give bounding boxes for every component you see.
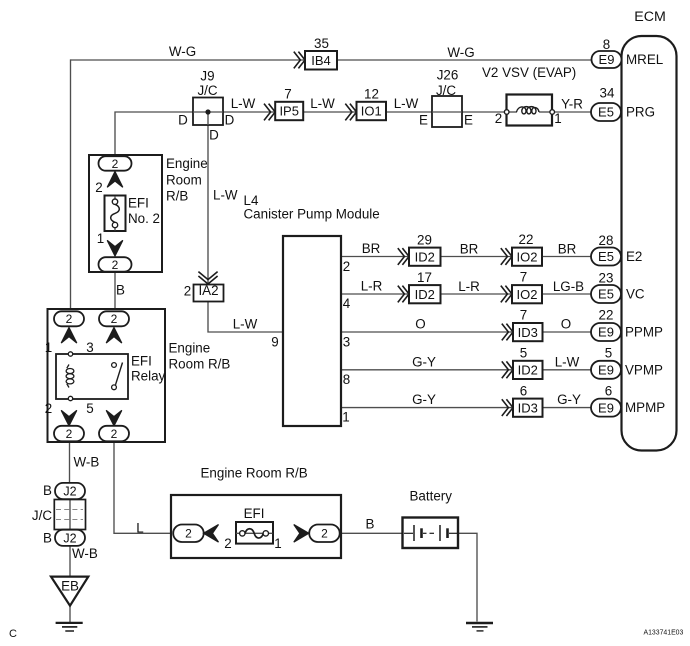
- svg-text:8: 8: [343, 372, 350, 387]
- svg-text:6: 6: [520, 384, 527, 399]
- svg-text:1: 1: [97, 231, 104, 246]
- figure number A133741E03: [644, 630, 684, 637]
- pin 6 E9 MPMP: [591, 384, 665, 417]
- svg-text:2: 2: [66, 312, 73, 326]
- svg-text:D: D: [225, 113, 235, 128]
- svg-text:PRG: PRG: [626, 105, 655, 120]
- wire G-Y ID3 to ECM pin E9-6: [543, 407, 592, 409]
- connector ID2 pin 29 row1: [398, 233, 441, 266]
- svg-text:L-W: L-W: [233, 317, 258, 332]
- svg-text:E5: E5: [598, 287, 614, 302]
- label B wire: [116, 283, 125, 298]
- pin 28 E5 E2: [591, 233, 642, 266]
- svg-text:ECM: ECM: [634, 9, 666, 25]
- label B battery wire: [366, 517, 375, 532]
- wire O ID3 to ECM pin E9-22: [543, 331, 592, 333]
- connector IO2 pin 7 row2: [501, 270, 542, 304]
- svg-text:Room R/B: Room R/B: [169, 357, 231, 372]
- wire L from relay pin 5 to Engine Room R/B: [114, 442, 174, 534]
- arrow up relay pin3: [106, 328, 122, 344]
- wire BR IO2 to ECM pin E5-28: [542, 256, 592, 258]
- svg-text:J/C: J/C: [436, 83, 456, 98]
- wire BR module pin 2 to ID2: [341, 256, 409, 258]
- module pin 4 label: [343, 296, 351, 311]
- svg-text:J26: J26: [437, 68, 459, 83]
- svg-text:Battery: Battery: [410, 489, 453, 504]
- svg-text:17: 17: [417, 270, 432, 285]
- ECM outline: [622, 9, 677, 451]
- arrow down out of fuse EFI No.2: [107, 240, 123, 256]
- relay switch contact: [112, 363, 123, 390]
- label G-Y ID3-E9: [557, 392, 581, 407]
- svg-text:VPMP: VPMP: [625, 362, 663, 377]
- svg-text:EFI: EFI: [128, 196, 149, 211]
- label BR module-ID2: [362, 241, 381, 256]
- svg-text:R/B: R/B: [166, 189, 188, 204]
- wire L-R module pin 4 to ID2: [341, 293, 409, 295]
- svg-text:B: B: [116, 283, 125, 298]
- label BR ID2-IO2: [460, 242, 479, 257]
- svg-text:W-G: W-G: [169, 44, 196, 59]
- connector oval 2 relay pin1 top: [54, 311, 84, 326]
- svg-text:Engine: Engine: [169, 341, 211, 356]
- wire L-W from J26 to VSV: [462, 111, 505, 113]
- svg-text:2: 2: [224, 536, 231, 551]
- earth ground symbol left: [56, 623, 83, 631]
- svg-text:12: 12: [364, 87, 379, 102]
- svg-text:5: 5: [520, 346, 527, 361]
- svg-text:2: 2: [95, 180, 102, 195]
- svg-text:J/C: J/C: [197, 83, 217, 98]
- svg-text:ID3: ID3: [518, 400, 538, 415]
- label W-G left: [169, 44, 196, 59]
- svg-text:V2 VSV (EVAP): V2 VSV (EVAP): [482, 65, 576, 80]
- wire L-W from IP5 to IO1: [303, 111, 357, 113]
- svg-text:C: C: [9, 628, 17, 640]
- wire Y-R from VSV to ECM pin E5-34: [554, 111, 592, 113]
- svg-text:J2: J2: [63, 485, 76, 499]
- svg-text:D: D: [178, 113, 188, 128]
- wire G-Y module pin 1 to ID3: [341, 407, 513, 409]
- svg-text:BR: BR: [460, 242, 479, 257]
- wire W-G vertical branch down left side: [70, 59, 72, 311]
- svg-text:EFI: EFI: [244, 506, 265, 521]
- wire BR ID2 to IO2: [441, 256, 513, 258]
- wire relay coil branch vertical: [68, 326, 70, 427]
- label L-W IO1-J26: [394, 96, 419, 111]
- wire W-B from J2 to EB ground: [69, 546, 71, 577]
- label G-Y module-ID2 row4: [412, 355, 436, 370]
- wire from battery to ground: [458, 533, 477, 621]
- svg-text:O: O: [415, 317, 425, 332]
- relay block Engine Room R/B lower outline: [171, 466, 341, 559]
- svg-text:E9: E9: [598, 362, 614, 377]
- wire L-W from J9 to Engine Room R/B junction: [115, 112, 193, 156]
- svg-text:G-Y: G-Y: [412, 392, 436, 407]
- wire L-R ID2 to IO2: [441, 293, 513, 295]
- module pin 9 label: [271, 335, 278, 350]
- svg-text:No. 2: No. 2: [128, 211, 160, 226]
- pin 23 E5 VC: [591, 271, 645, 304]
- svg-text:LG-B: LG-B: [553, 279, 584, 294]
- arrow up into fuse EFI No.2: [107, 172, 123, 188]
- svg-text:9: 9: [271, 335, 278, 350]
- label W-B lower: [72, 546, 98, 561]
- wire W-B from relay to J2: [69, 442, 71, 484]
- svg-text:L-W: L-W: [310, 96, 335, 111]
- svg-text:J/C: J/C: [32, 508, 52, 523]
- svg-text:Engine: Engine: [166, 156, 208, 171]
- svg-text:2: 2: [185, 527, 192, 541]
- svg-text:2: 2: [112, 258, 119, 272]
- arrow left into fuse EFI: [204, 525, 219, 543]
- earth ground symbol right: [466, 623, 493, 631]
- arrow down relay pin5: [106, 410, 122, 426]
- svg-text:28: 28: [599, 233, 614, 248]
- connector ID2 pin 5 row4: [502, 346, 543, 380]
- connector IA2 pin 2: [184, 272, 224, 302]
- wire through J/C junction: [69, 499, 71, 531]
- svg-text:G-Y: G-Y: [412, 355, 436, 370]
- svg-text:MPMP: MPMP: [625, 400, 665, 415]
- svg-text:L-R: L-R: [458, 279, 480, 294]
- svg-text:EB: EB: [61, 579, 79, 594]
- svg-text:6: 6: [605, 384, 612, 399]
- label L-W ID2-E9: [555, 354, 580, 369]
- svg-text:W-B: W-B: [74, 455, 100, 470]
- svg-text:22: 22: [519, 232, 534, 247]
- svg-text:22: 22: [599, 308, 614, 323]
- svg-text:5: 5: [86, 401, 93, 416]
- svg-text:L-W: L-W: [213, 188, 238, 203]
- wire inside R/B fuse to bottom oval: [114, 231, 116, 259]
- connector IO2 pin 22 row1: [501, 232, 542, 266]
- svg-text:W-B: W-B: [72, 546, 98, 561]
- svg-text:MREL: MREL: [626, 52, 663, 67]
- svg-text:35: 35: [314, 36, 329, 51]
- junction J26 J/C: [419, 68, 473, 128]
- svg-text:E2: E2: [626, 249, 642, 264]
- connector J2 upper: [43, 483, 85, 499]
- svg-text:3: 3: [86, 340, 93, 355]
- svg-text:8: 8: [603, 37, 610, 52]
- label O ID3-E9: [561, 317, 571, 332]
- pin 22 E9 PPMP: [591, 308, 663, 342]
- svg-text:B: B: [43, 483, 52, 498]
- solenoid V2 VSV (EVAP): [482, 65, 576, 126]
- label L wire: [136, 521, 143, 536]
- connector oval 2 bottom R/B right: [309, 525, 340, 543]
- svg-text:2: 2: [321, 527, 328, 541]
- pin 8 E9 MREL: [592, 37, 664, 68]
- svg-text:IA2: IA2: [198, 283, 218, 298]
- connector oval 2 relay pin3 top: [99, 311, 129, 326]
- svg-text:E9: E9: [598, 400, 614, 415]
- arrow up relay pin1: [61, 328, 77, 344]
- connector oval 2 bottom R/B left: [173, 525, 204, 543]
- connector IB4 pin 35: [294, 36, 337, 70]
- label BR IO2-E5: [558, 242, 577, 257]
- connector oval 2 relay pin5 bottom: [99, 426, 129, 442]
- wire B from R/B to battery: [340, 532, 403, 534]
- wire inside R/B oval to fuse EFI No.2: [114, 170, 116, 196]
- arrow down relay pin2: [61, 410, 77, 426]
- svg-text:Y-R: Y-R: [561, 97, 583, 112]
- svg-text:Relay: Relay: [131, 369, 166, 384]
- module pin 8 label: [343, 372, 350, 387]
- svg-text:B: B: [43, 531, 52, 546]
- pin 34 E5 PRG: [591, 86, 655, 122]
- connector ID3 pin 7 row3: [502, 308, 543, 342]
- label L-W IP5-IO1: [310, 96, 335, 111]
- ground EB triangle: [51, 577, 88, 606]
- svg-text:2: 2: [111, 312, 118, 326]
- svg-text:E: E: [419, 113, 428, 128]
- label LG-B IO2-E5: [553, 279, 584, 294]
- svg-text:L-W: L-W: [555, 354, 580, 369]
- svg-text:4: 4: [343, 296, 351, 311]
- fuse EFI pin 1 label: [274, 536, 281, 551]
- svg-text:PPMP: PPMP: [625, 325, 663, 340]
- relay coil: [66, 365, 74, 388]
- relay pin 3 label: [86, 340, 93, 355]
- svg-text:23: 23: [599, 271, 614, 286]
- label W-G right: [447, 45, 474, 60]
- svg-text:7: 7: [520, 308, 527, 323]
- svg-text:E9: E9: [598, 325, 614, 340]
- junction J9 J/C: [178, 69, 235, 143]
- fuse EFI bottom: [236, 506, 273, 544]
- svg-text:IP5: IP5: [279, 104, 299, 119]
- relay pin 5 label: [86, 401, 93, 416]
- wire L-W from IA2 to module pin 9: [208, 302, 283, 333]
- label G-Y module-ID3 row5: [412, 392, 436, 407]
- svg-text:BR: BR: [558, 242, 577, 257]
- svg-text:ID2: ID2: [518, 363, 538, 378]
- svg-text:7: 7: [284, 87, 291, 102]
- wire L-W from IO1 to J26: [386, 111, 432, 113]
- label O module-ID3: [415, 317, 425, 332]
- svg-text:IO2: IO2: [517, 287, 538, 302]
- svg-text:E9: E9: [599, 52, 615, 67]
- module pin 3 label: [343, 335, 350, 350]
- junction J/C dashed: [32, 500, 86, 530]
- wire inside bottom R/B right of fuse: [272, 532, 310, 534]
- label L-R ID2-IO2: [458, 279, 480, 294]
- svg-text:EFI: EFI: [131, 354, 152, 369]
- connector IO1 pin 12: [345, 87, 386, 121]
- svg-text:A133741E03: A133741E03: [644, 630, 684, 637]
- wire relay switch branch lower: [113, 390, 115, 427]
- svg-text:L-W: L-W: [231, 96, 256, 111]
- svg-text:J2: J2: [63, 531, 76, 545]
- relay EFI inner box: [56, 352, 166, 401]
- svg-text:L-R: L-R: [361, 279, 383, 294]
- svg-text:E5: E5: [598, 105, 614, 120]
- svg-text:E5: E5: [598, 249, 614, 264]
- label Y-R: [561, 97, 583, 112]
- module L4 Canister Pump Module outline: [244, 193, 380, 426]
- connector IP5 pin 7: [264, 87, 303, 121]
- battery: [403, 489, 459, 549]
- connector ID3 pin 6 row5: [502, 384, 543, 417]
- wire G-Y module pin 8 to ID2: [341, 369, 513, 371]
- svg-text:2: 2: [495, 111, 502, 126]
- wire L-W from J9 down to IA2: [207, 125, 209, 285]
- wire W-G from IB4 to ECM pin E9-8: [337, 59, 592, 61]
- connector oval 2 relay pin2 bottom: [54, 426, 84, 442]
- svg-text:34: 34: [600, 86, 615, 101]
- pin 5 E9 VPMP: [591, 346, 663, 379]
- svg-text:VC: VC: [626, 287, 645, 302]
- fuse EFI No. 2 pin 1 label: [97, 231, 104, 246]
- svg-text:L-W: L-W: [394, 96, 419, 111]
- svg-text:2: 2: [111, 427, 118, 441]
- relay block Engine Room R/B upper outline: [89, 155, 208, 272]
- svg-text:D: D: [209, 128, 219, 143]
- relay pin 2 label: [45, 401, 52, 416]
- svg-text:IO2: IO2: [517, 249, 538, 264]
- wire LG-B IO2 to ECM pin E5-23: [542, 293, 592, 295]
- corner label C: [9, 628, 17, 640]
- svg-text:5: 5: [605, 346, 612, 361]
- svg-text:B: B: [366, 517, 375, 532]
- svg-text:Canister Pump Module: Canister Pump Module: [244, 206, 380, 221]
- wire inside bottom R/B left of fuse: [202, 532, 236, 534]
- svg-text:2: 2: [112, 157, 119, 171]
- svg-text:1: 1: [554, 111, 561, 126]
- svg-text:3: 3: [343, 335, 350, 350]
- svg-text:2: 2: [343, 259, 350, 274]
- connector ID2 pin 17 row2: [398, 270, 441, 303]
- svg-text:L: L: [136, 521, 143, 536]
- module pin 2 label: [343, 259, 350, 274]
- svg-text:O: O: [561, 317, 571, 332]
- svg-text:BR: BR: [362, 241, 381, 256]
- svg-text:2: 2: [45, 401, 52, 416]
- svg-text:29: 29: [417, 233, 432, 248]
- svg-text:ID2: ID2: [415, 249, 435, 264]
- svg-text:G-Y: G-Y: [557, 392, 581, 407]
- arrow right out of fuse EFI: [294, 525, 309, 543]
- label L-W vertical branch: [213, 188, 238, 203]
- connector oval 2 top of upper R/B: [99, 156, 132, 171]
- fuse EFI No. 2 pin 2 label: [95, 180, 102, 195]
- fuse EFI pin 2 label: [224, 536, 231, 551]
- wire W-G from junction to IB4: [71, 59, 306, 61]
- module pin 1 label: [342, 410, 349, 425]
- wire relay switch branch upper: [113, 326, 115, 364]
- svg-text:7: 7: [520, 270, 527, 285]
- svg-text:2: 2: [184, 284, 191, 299]
- label L-R module-ID2: [361, 279, 383, 294]
- connector J2 lower: [43, 530, 85, 546]
- svg-text:1: 1: [45, 340, 52, 355]
- wire B from R/B to EFI relay: [114, 272, 116, 313]
- svg-text:ID2: ID2: [415, 287, 435, 302]
- relay block EFI Relay outline: [48, 309, 231, 442]
- label L-W J9-IP5: [231, 96, 256, 111]
- relay pin 1 label: [45, 340, 52, 355]
- svg-text:Engine Room R/B: Engine Room R/B: [201, 466, 308, 481]
- label W-B upper: [74, 455, 100, 470]
- svg-text:ID3: ID3: [518, 325, 538, 340]
- svg-text:1: 1: [274, 536, 281, 551]
- svg-text:1: 1: [342, 410, 349, 425]
- label L-W IA2-module: [233, 317, 258, 332]
- svg-text:Room: Room: [166, 172, 202, 187]
- connector oval 2 bottom of upper R/B: [99, 257, 132, 272]
- svg-text:E: E: [464, 113, 473, 128]
- svg-text:IB4: IB4: [311, 53, 331, 68]
- wire from EB triangle to earth: [69, 606, 71, 623]
- svg-text:IO1: IO1: [361, 104, 382, 119]
- wire L-W ID2 to ECM pin E9-5: [543, 369, 592, 371]
- fuse EFI No. 2: [105, 196, 161, 232]
- wire L-W from J9 to IP5: [223, 111, 275, 113]
- svg-text:J9: J9: [200, 69, 214, 84]
- svg-text:2: 2: [66, 427, 73, 441]
- svg-text:W-G: W-G: [447, 45, 474, 60]
- wire O module pin 3 to ID3: [341, 331, 513, 333]
